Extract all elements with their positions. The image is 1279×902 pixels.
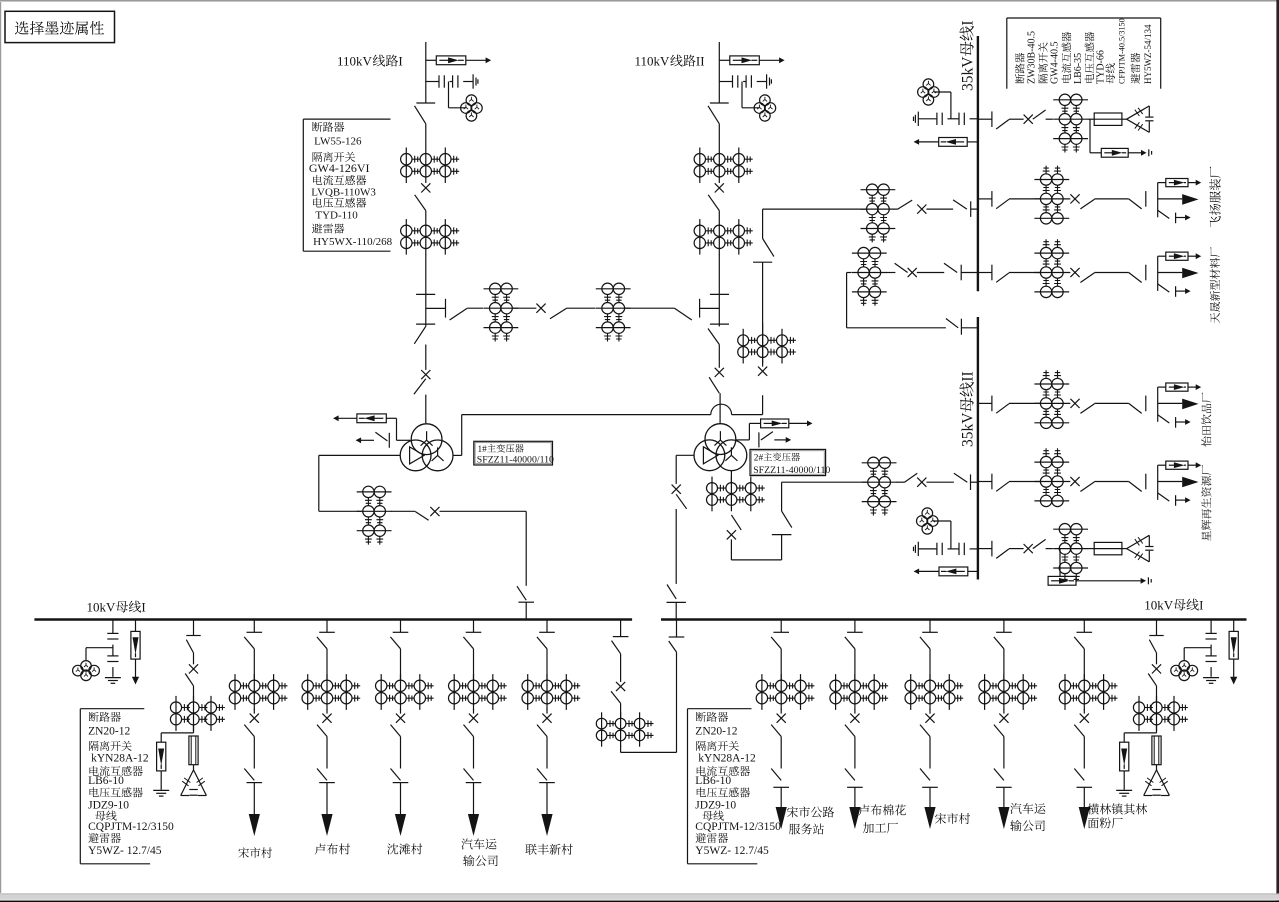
wire	[780, 649, 782, 680]
35kV equipment spec box (rotated)	[1006, 18, 1008, 89]
cable arrester box	[1158, 182, 1166, 184]
bus stub	[400, 620, 402, 633]
cable arrester box	[1158, 386, 1166, 388]
station PT cluster	[86, 647, 113, 649]
35kV incoming wire to bus I	[763, 208, 867, 210]
breaker X	[469, 714, 478, 723]
label 星辉再生资源厂	[1201, 465, 1211, 541]
wire	[854, 649, 856, 680]
current transformer group upper	[405, 148, 407, 184]
bus II incoming wire	[782, 481, 868, 483]
disconnector	[464, 769, 474, 781]
PT fuse	[1152, 736, 1161, 765]
svg-text:I: I	[141, 600, 145, 615]
CT group	[1053, 99, 1088, 101]
T2 neutral wire	[736, 439, 750, 441]
cable arrester box	[1158, 464, 1166, 466]
T1 10kV CT group	[357, 491, 392, 493]
spec text 电流互感器	[90, 766, 99, 776]
tick	[1145, 474, 1147, 490]
disconnector	[185, 674, 193, 686]
label 35kV母线II	[960, 371, 977, 447]
bus stub	[978, 548, 992, 550]
tick	[996, 786, 1012, 788]
tick	[1077, 786, 1093, 788]
wire	[1003, 709, 1005, 714]
bridge disconnector	[550, 308, 567, 319]
bus stub	[780, 620, 782, 633]
incoming CT group	[862, 462, 897, 464]
svg-text:II: II	[960, 371, 977, 381]
wire	[1095, 402, 1129, 404]
spec text 电流互感器 rotated	[1061, 32, 1071, 83]
disconnector	[771, 725, 781, 737]
junction bar	[1157, 387, 1159, 422]
voltage transformer PT cluster	[741, 82, 743, 108]
breaker X	[999, 714, 1008, 723]
T2 neutral arrester box	[749, 422, 760, 424]
CT group	[1053, 528, 1088, 530]
disconnector	[1074, 725, 1084, 737]
incoming CT group	[861, 189, 896, 191]
svg-text:LVQB-110W3: LVQB-110W3	[311, 186, 376, 198]
feeder CT group	[835, 674, 837, 710]
disconnector	[996, 404, 1009, 414]
tie CT group	[852, 252, 887, 254]
wire	[1156, 686, 1158, 702]
svg-text:ZN20-12: ZN20-12	[695, 726, 737, 738]
wire	[400, 737, 402, 769]
disconnector	[895, 263, 908, 272]
wire	[1009, 481, 1040, 483]
fuse box	[1094, 113, 1122, 125]
wire	[1122, 118, 1127, 120]
wire	[1046, 548, 1053, 550]
svg-text:HY5WZ-54/134: HY5WZ-54/134	[1143, 24, 1153, 84]
spec text GW4-40.5 rotated	[1049, 42, 1060, 85]
wire	[886, 272, 895, 274]
breaker X	[421, 183, 430, 192]
feeder arrow	[1003, 787, 1005, 815]
disconnector	[244, 725, 254, 737]
breaker X	[396, 714, 405, 723]
arrester branch	[1124, 732, 1156, 734]
breaker X	[727, 530, 736, 539]
wire	[193, 765, 195, 770]
disconnector	[920, 637, 930, 649]
breaker X	[189, 664, 198, 673]
feeder arrow	[400, 783, 402, 822]
spec text 电压互感器 rotated	[1085, 32, 1095, 83]
spec text 母线 right	[702, 811, 712, 821]
bridge CT group B	[596, 288, 631, 290]
svg-text:35kV: 35kV	[960, 412, 977, 447]
svg-text:TYD-66: TYD-66	[1096, 50, 1107, 84]
tie right leg	[676, 652, 678, 752]
breaker X	[542, 714, 551, 723]
wire	[926, 208, 953, 210]
10kV equipment spec box right	[687, 709, 689, 864]
wire	[854, 709, 856, 714]
disconnector	[537, 637, 547, 649]
disconnector	[317, 637, 327, 649]
spec text 断路器	[312, 122, 322, 132]
line II transformer branch: disconnector	[718, 324, 720, 326]
breaker X	[1152, 664, 1161, 673]
disconnector	[415, 195, 426, 211]
spec text HY5WZ-54/134 rotated	[1143, 24, 1153, 84]
disconnector	[710, 102, 729, 104]
disconnector	[1129, 199, 1142, 209]
wire	[762, 323, 764, 367]
wire	[425, 124, 427, 148]
breaker X	[917, 205, 926, 214]
PT CT group	[1138, 696, 1140, 731]
riser breaker X	[758, 367, 767, 376]
PT delta with capacitor	[181, 770, 194, 796]
bus stub	[970, 474, 972, 490]
spec text TYD-66 rotated	[1096, 50, 1107, 84]
wire	[546, 709, 548, 714]
svg-text:35kV: 35kV	[960, 56, 977, 91]
disconnector	[1129, 273, 1142, 283]
wire	[440, 510, 527, 512]
label 宋市村	[238, 847, 249, 858]
spec text 电流互感器	[313, 175, 322, 185]
disconnector	[463, 637, 473, 649]
wire	[719, 393, 721, 424]
wire 110kV line drop	[425, 42, 427, 103]
wire	[473, 649, 475, 680]
tie corner wire down to bus II	[846, 273, 848, 328]
bridge H symbol left	[416, 293, 435, 295]
svg-text:LB6-10: LB6-10	[695, 775, 731, 787]
disconnector	[1129, 482, 1142, 492]
ink property button	[5, 11, 115, 42]
arrester triangle with capacitor	[1127, 106, 1150, 119]
disconnector	[414, 379, 426, 395]
label 横林镇其林面粉厂	[1088, 803, 1099, 814]
window top border	[0, 0, 1277, 2]
disconnector	[771, 637, 781, 649]
disconnector	[996, 273, 1009, 283]
wire	[253, 649, 255, 680]
svg-text:JDZ9-10: JDZ9-10	[88, 799, 129, 811]
wire	[1009, 272, 1040, 274]
arrester in series box with line arrow	[426, 59, 437, 61]
bus stub	[960, 265, 962, 281]
svg-text:I: I	[960, 20, 977, 25]
svg-text:ZN20-12: ZN20-12	[88, 726, 130, 738]
disconnector	[920, 725, 930, 737]
breaker X	[777, 714, 786, 723]
spec text 隔离开关	[89, 741, 99, 751]
disconnector	[1148, 674, 1156, 686]
svg-text:1#: 1#	[478, 445, 488, 455]
breaker X	[421, 370, 430, 379]
bridge wire left	[467, 307, 483, 309]
disconnector	[317, 725, 327, 737]
bus stub	[854, 620, 856, 633]
disconnector	[898, 200, 913, 209]
breaker X	[1070, 268, 1079, 277]
disconnector	[1033, 539, 1046, 548]
svg-text:SFZZ11-40000/110: SFZZ11-40000/110	[477, 455, 554, 466]
T2 35kV CT group	[711, 477, 713, 512]
feeder CT group	[1034, 252, 1069, 254]
T1 neutral arrester box	[386, 417, 396, 419]
wire	[1095, 272, 1129, 274]
disconnector	[186, 640, 193, 653]
T2 neutral grounding switch	[758, 432, 760, 447]
svg-text:CFPJTM-40.5/3150: CFPJTM-40.5/3150	[1118, 18, 1127, 84]
svg-text:kYN28A-12: kYN28A-12	[91, 753, 149, 765]
disconnector	[244, 637, 254, 649]
disconnector	[845, 769, 855, 781]
disconnector	[464, 725, 474, 737]
bus stub	[473, 620, 475, 633]
ground branch	[1158, 284, 1170, 292]
tick	[922, 786, 938, 788]
bus stub	[978, 402, 992, 404]
cable arrester box	[1158, 255, 1166, 257]
disconnector	[996, 199, 1009, 209]
disconnector	[416, 102, 435, 104]
wire	[718, 211, 720, 220]
wire	[718, 124, 720, 148]
T2 10kV lead	[676, 454, 694, 456]
wire	[1003, 737, 1005, 769]
tick	[393, 782, 409, 784]
ground	[1203, 677, 1219, 679]
coupling capacitor chain	[719, 81, 732, 83]
disconnector	[611, 691, 621, 703]
breaker X	[1070, 399, 1079, 408]
wire	[1083, 737, 1085, 769]
current transformer group lower	[699, 219, 701, 255]
breaker X	[1070, 477, 1079, 486]
tick	[1145, 396, 1147, 412]
bus I PT cluster	[923, 79, 934, 90]
breaker X	[322, 714, 331, 723]
disconnector	[994, 637, 1004, 649]
wire	[780, 737, 782, 769]
wire	[732, 414, 763, 416]
svg-text:I: I	[1199, 598, 1203, 613]
T2 35kV-II lead down	[730, 471, 732, 482]
coupling capacitor chain	[426, 81, 439, 83]
bridge H symbol right	[710, 293, 729, 295]
riser to bus II bay	[781, 535, 783, 560]
feeder CT group	[307, 674, 309, 710]
feeder CT group	[1064, 674, 1066, 710]
svg-text:GW4-40.5: GW4-40.5	[1049, 42, 1060, 85]
wire	[546, 649, 548, 680]
disconnector	[944, 263, 957, 272]
T1 35kV lead	[453, 454, 462, 456]
disconnector	[1080, 404, 1094, 414]
feeder CT group	[453, 674, 455, 710]
svg-text:HY5WX-110/268: HY5WX-110/268	[313, 236, 393, 248]
spec text 电压互感器	[313, 198, 322, 208]
svg-text:LB6-35: LB6-35	[1073, 53, 1084, 84]
status bar	[0, 894, 1279, 901]
feeder arrow	[1158, 481, 1183, 483]
bus stub	[669, 636, 685, 638]
disconnector	[953, 200, 967, 209]
spec text 隔离开关 right	[696, 741, 706, 751]
breaker X	[1024, 115, 1033, 124]
label 宋市村 right	[935, 813, 946, 824]
label 汽车运输公司 right	[1010, 803, 1021, 814]
bus stub	[518, 601, 534, 603]
T1 10kV lead	[319, 454, 400, 456]
feeder arrow	[253, 783, 255, 822]
disconnector	[994, 769, 1004, 781]
bus II coupling capacitors	[917, 542, 919, 556]
ground	[105, 677, 121, 679]
junction bar	[1157, 465, 1159, 500]
arrester branch below	[1059, 549, 1061, 577]
svg-text:Y5WZ- 12.7/45: Y5WZ- 12.7/45	[695, 845, 769, 857]
bottom black edge	[0, 901, 1279, 902]
label 天晟新型材料厂	[1210, 247, 1220, 323]
wire	[730, 539, 732, 560]
PT delta with capacitor	[1144, 770, 1157, 796]
wire	[193, 724, 195, 733]
label 沈滩村	[387, 844, 398, 855]
tie breaker X	[908, 268, 917, 277]
T1 neutral wire	[397, 439, 411, 441]
disconnector	[676, 494, 686, 509]
disconnector	[517, 586, 526, 600]
breaker X	[1070, 194, 1079, 203]
wire	[1088, 118, 1094, 120]
wire	[1083, 649, 1085, 680]
spec text 隔离开关	[313, 152, 323, 162]
transformer T2 2#	[705, 424, 736, 455]
feeder CT group	[527, 674, 529, 710]
bus stub	[929, 620, 931, 633]
svg-text:TYD-110: TYD-110	[315, 209, 358, 221]
spec text 隔离开关 rotated	[1038, 42, 1048, 83]
disconnector	[954, 473, 967, 482]
bridge CT group A	[484, 288, 519, 290]
bus tie 35kV I-II wire	[847, 272, 852, 274]
bus stub	[193, 620, 195, 636]
feeder CT group	[234, 674, 236, 710]
wire	[253, 737, 255, 769]
wire	[929, 649, 931, 680]
feeder CT group	[984, 674, 986, 710]
breaker X	[715, 183, 724, 192]
wire	[1009, 402, 1040, 404]
feeder CT group	[761, 674, 763, 710]
feeder arrow	[1083, 787, 1085, 815]
feeder arrow	[929, 787, 931, 815]
current transformer group lower	[405, 219, 407, 255]
disconnector	[1074, 769, 1084, 781]
110kV equipment spec box	[302, 119, 304, 251]
svg-text:II: II	[696, 54, 705, 69]
label 怡田饮品厂	[1201, 393, 1211, 447]
riser CT group	[742, 329, 744, 364]
disconnector	[317, 769, 327, 781]
feeder CT group	[1034, 383, 1069, 385]
bus tie left leg	[620, 620, 622, 637]
wire	[895, 208, 898, 210]
wire	[780, 709, 782, 714]
disconnector	[709, 377, 719, 393]
transformer T1 1#	[411, 424, 442, 455]
label 汽车运输公司	[461, 838, 472, 849]
wire	[620, 654, 622, 682]
spec text ZW30B-40.5 rotated	[1026, 31, 1037, 84]
bridge breaker X	[512, 307, 536, 309]
wire	[400, 649, 402, 680]
svg-text:GW4-126VI: GW4-126VI	[309, 161, 370, 175]
svg-text:2#: 2#	[754, 453, 764, 463]
wire	[326, 709, 328, 714]
arrester in series box with line arrow	[719, 59, 730, 61]
disconnector	[390, 637, 400, 649]
wire	[1069, 402, 1071, 404]
breaker X	[1024, 544, 1033, 553]
wire	[1156, 724, 1158, 733]
window right border	[1276, 0, 1279, 902]
riser disconnector	[753, 261, 772, 263]
10kV busbar I right section	[661, 618, 1247, 620]
T2 label box	[750, 449, 826, 475]
tick	[539, 782, 555, 784]
breaker X	[1080, 714, 1089, 723]
svg-text:ZW30B-40.5: ZW30B-40.5	[1026, 31, 1037, 84]
disconnector	[1080, 199, 1094, 209]
bus II PT cluster	[922, 508, 933, 519]
bus stub	[978, 198, 992, 200]
disconnector	[244, 769, 254, 781]
tick	[247, 782, 263, 784]
bridge wire to line II bay	[625, 307, 675, 309]
wire	[1069, 481, 1071, 483]
tick	[1145, 265, 1147, 281]
wire	[1069, 198, 1071, 200]
disconnector	[845, 637, 855, 649]
wire	[1046, 118, 1053, 120]
wire	[1003, 649, 1005, 680]
svg-text:110kV: 110kV	[635, 54, 671, 69]
bus stub	[1003, 620, 1005, 633]
breaker X	[250, 714, 259, 723]
current transformer group upper	[699, 148, 701, 184]
disconnector	[537, 769, 547, 781]
bus stub	[253, 620, 255, 633]
feeder arrow	[780, 787, 782, 815]
breaker X	[850, 714, 859, 723]
wire hop over T2 110kV lead	[711, 404, 732, 414]
10kV busbar I left section	[34, 618, 632, 620]
wire	[473, 709, 475, 714]
disconnector	[612, 641, 621, 654]
bus stub	[667, 601, 686, 603]
wire	[1009, 118, 1024, 120]
disconnector	[708, 195, 719, 211]
tie CT group	[601, 712, 603, 746]
wire	[1069, 272, 1071, 274]
window left border	[0, 2, 2, 893]
arrester branch	[161, 732, 193, 734]
line I transformer branch: disconnector	[425, 324, 427, 326]
